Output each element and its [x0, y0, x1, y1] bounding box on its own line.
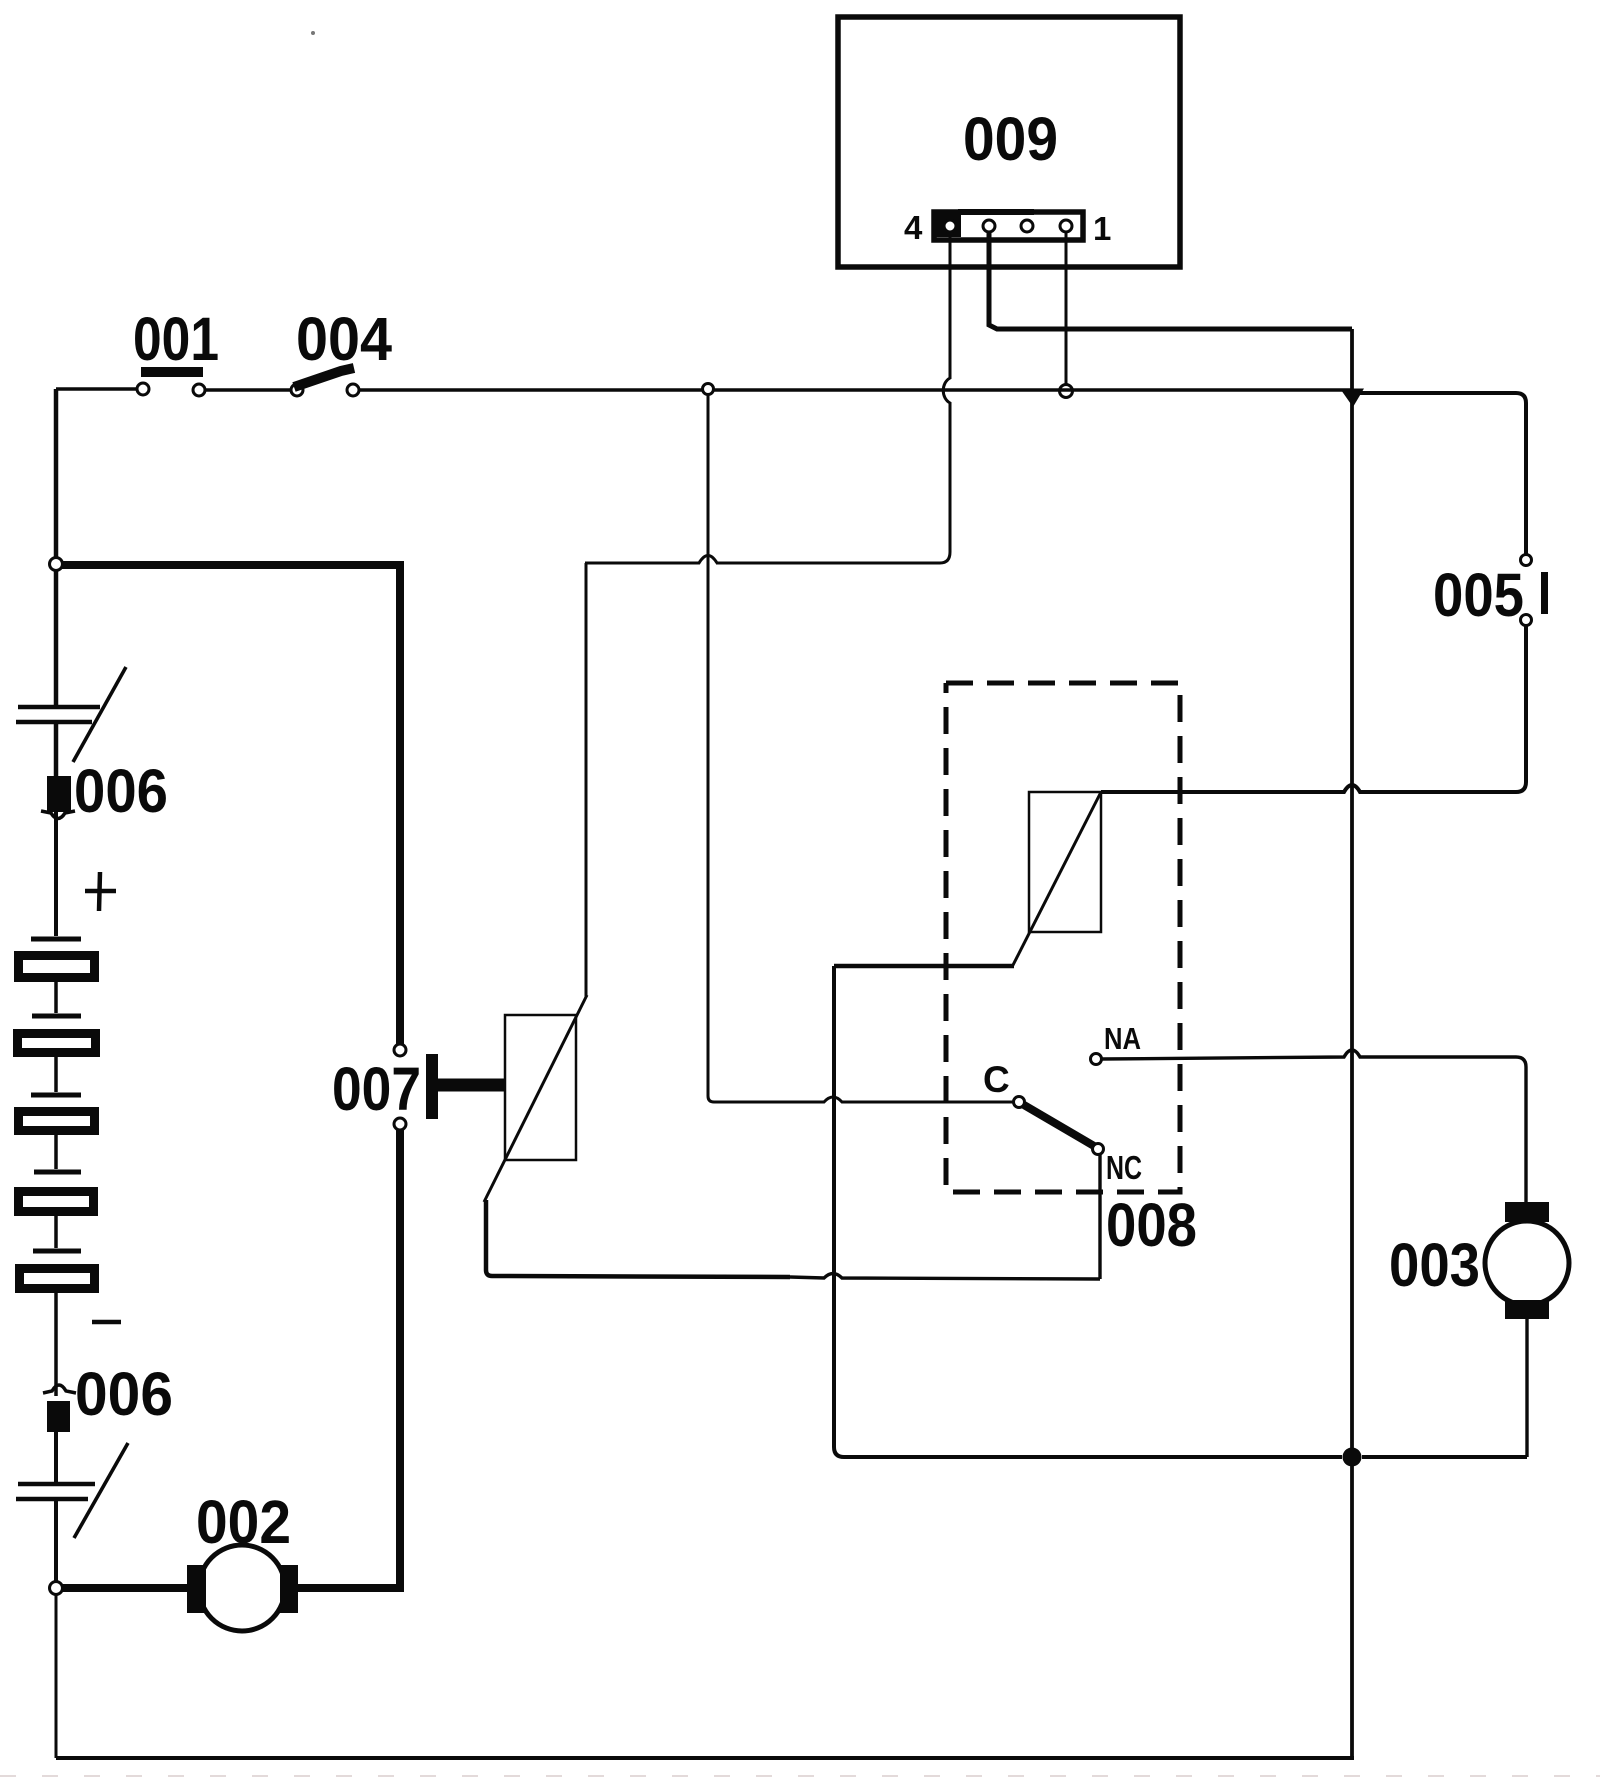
- motor 003 bottom brush: [1505, 1300, 1549, 1319]
- switch 004 terminals: [291, 384, 303, 396]
- pin circle 2: [1021, 220, 1033, 232]
- relay 008 dashed enclosure: [946, 683, 1180, 1192]
- thick column lower segment: [396, 1130, 404, 1592]
- node junction left rail / thick branch: [50, 558, 63, 571]
- circuit breaker bottom: [18, 1482, 95, 1487]
- connector strip top smear: [958, 209, 1034, 215]
- wire branch 005: from rail top right to switch: [1352, 393, 1526, 554]
- svg-text:009: 009: [963, 105, 1058, 173]
- battery cell body 1: [19, 956, 95, 978]
- switch 007 actuator rod: [438, 1079, 505, 1092]
- wire coil bottom left to junction column: [834, 964, 1014, 969]
- svg-text:003: 003: [1389, 1231, 1480, 1299]
- relay 007 coil box: [505, 1015, 576, 1160]
- wire: [54, 1432, 58, 1484]
- contact C terminal: [1014, 1097, 1025, 1108]
- battery cell body 5: [20, 1269, 95, 1289]
- node middle junction on top bus: [703, 384, 714, 395]
- wire from pin 1 down to junction on top bus: [1065, 232, 1068, 385]
- switch 007 actuator bar: [426, 1054, 438, 1119]
- wire junction to motor 002: [62, 1584, 187, 1592]
- node pin1 junction circle: [1060, 385, 1073, 398]
- relay 008 coil diagonal: [1012, 792, 1101, 967]
- fuse 006 upper clip: [41, 811, 75, 819]
- wire NA to motor 003 top with hop over right rail: [1101, 1050, 1526, 1204]
- scan artifact dotted line bottom: [0, 1775, 1600, 1777]
- left vertical wire from top bus down to breaker: [54, 389, 59, 707]
- battery cell plate 1: [31, 937, 81, 942]
- battery plus sign: [85, 872, 116, 911]
- hop of cross wire over middle vertical: [585, 556, 717, 564]
- wire from armature top up to cross wire: [585, 563, 588, 997]
- wire from pin 4 down with hop over top bus: [716, 232, 950, 563]
- contact NC terminal: [1093, 1144, 1104, 1155]
- svg-text:008: 008: [1106, 1191, 1197, 1259]
- wire: [54, 1216, 58, 1248]
- svg-text:4: 4: [904, 209, 923, 246]
- battery cell plate 3: [31, 1093, 81, 1098]
- switch 005 lower terminal: [1521, 615, 1532, 626]
- fuse 006 lower body: [47, 1401, 70, 1432]
- node junction dot right rail / motor return: [1343, 1448, 1362, 1467]
- wire motor 002 to thick column: [298, 1584, 404, 1592]
- svg-text:006: 006: [74, 757, 168, 825]
- battery cell body 2: [18, 1034, 96, 1053]
- wire 005 lower leg down and left to relay coil top: [1101, 626, 1526, 792]
- svg-text:006: 006: [75, 1360, 173, 1428]
- switch 007 lower terminal: [394, 1118, 406, 1130]
- svg-text:005: 005: [1433, 561, 1524, 629]
- wire: [54, 1293, 58, 1396]
- wire between 001 and 004: [205, 388, 291, 391]
- pin circle 4: [944, 220, 956, 232]
- switch 005 actuator bar: [1541, 572, 1548, 614]
- connector strip of 009: [934, 212, 1083, 240]
- svg-text:001: 001: [133, 305, 219, 373]
- contact NA terminal: [1091, 1054, 1102, 1065]
- wire junction column x=833: [834, 966, 1342, 1457]
- fuse 006 lower clip: [43, 1385, 76, 1393]
- wire: [54, 812, 58, 936]
- pin circle 1: [1060, 220, 1072, 232]
- node junction battery negative: [50, 1582, 63, 1595]
- controller box U009: [838, 17, 1180, 267]
- fuse 006 upper body: [47, 776, 71, 812]
- circuit breaker top (006 group): [18, 705, 100, 710]
- connector strip dark left section: [936, 214, 961, 237]
- wire motor003 bottom return: [1362, 1455, 1527, 1459]
- svg-text:NC: NC: [1106, 1149, 1142, 1186]
- motor 002 body: [199, 1545, 285, 1631]
- relay 008 coil box: [1029, 792, 1101, 932]
- bottom rail wire: [56, 1756, 1354, 1760]
- motor 003 body: [1485, 1221, 1569, 1305]
- switch 001 blade (closed bar): [141, 367, 203, 377]
- svg-text:NA: NA: [1104, 1021, 1141, 1056]
- wire from armature bottom down then right: [486, 1200, 790, 1277]
- wire motor 003 bottom leg: [1525, 1319, 1528, 1457]
- battery cell body 4: [19, 1192, 94, 1212]
- battery cell plate 5: [33, 1249, 81, 1254]
- contact blade C to NC: [1024, 1105, 1094, 1146]
- top bus wire right of 004 to right rail: [359, 388, 1352, 391]
- pin circle 3: [983, 220, 995, 232]
- wire NC down to bottom row: [1098, 1154, 1101, 1279]
- switch 004 blade (angled): [294, 368, 354, 387]
- top bus wire left segment: [56, 387, 137, 390]
- switch 005 upper terminal: [1521, 555, 1532, 566]
- switch 007 upper terminal: [394, 1044, 406, 1056]
- wire: [54, 722, 59, 776]
- wire middle vertical from top bus junction down to C: [708, 395, 1013, 1102]
- switch 001 terminals: [137, 383, 149, 395]
- motor 002 right brush: [280, 1565, 298, 1613]
- battery cell plate 4: [34, 1170, 81, 1175]
- wire: [54, 982, 58, 1013]
- wire right rail vertical x=1352: [1350, 329, 1354, 1758]
- wire from pin 3 thick, down then right to x=1352: [989, 232, 1352, 329]
- svg-text:004: 004: [296, 305, 392, 373]
- wire battery negative down to bottom rail: [55, 1594, 58, 1758]
- battery cell plate 2: [32, 1014, 81, 1019]
- scan artifact dot top left: [311, 31, 315, 35]
- wire: [54, 1135, 58, 1169]
- battery cell body 3: [19, 1112, 95, 1131]
- motor 002 left brush: [187, 1565, 206, 1613]
- battery minus sign: [92, 1320, 121, 1325]
- svg-text:007: 007: [332, 1055, 421, 1123]
- thick branch wire to 007 column: [61, 565, 400, 1044]
- motor 003 top brush: [1505, 1202, 1549, 1222]
- svg-text:1: 1: [1093, 210, 1111, 247]
- V notch at right rail top junction: [1340, 389, 1364, 408]
- svg-text:C: C: [983, 1059, 1010, 1100]
- wire: [54, 1499, 58, 1582]
- wire: [54, 1056, 58, 1092]
- relay 007 armature diagonal: [484, 995, 587, 1202]
- wire continuation to NC column: [790, 1274, 1100, 1280]
